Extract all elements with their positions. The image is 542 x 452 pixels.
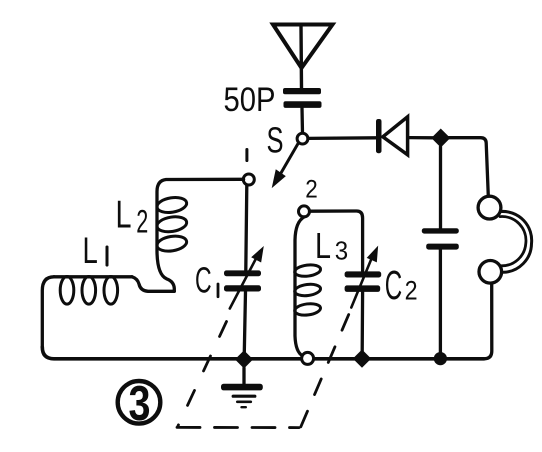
svg-text:C: C (385, 262, 402, 308)
svg-text:2: 2 (305, 176, 318, 204)
svg-text:L: L (315, 225, 331, 266)
headphones headband outer arc (501, 211, 532, 272)
wire C1 down to junction (244, 292, 245, 353)
svg-text:L: L (83, 230, 98, 271)
label 1 (switch contact 1) (245, 148, 248, 162)
contact 1 (243, 174, 254, 185)
capacitor C2 (variable) (345, 271, 382, 292)
dashed gang link left (through C1) (178, 322, 227, 427)
wire headphones down to bottom right corner (484, 283, 492, 359)
left vertical wire (42, 277, 54, 347)
headphones headband inner arc (500, 217, 526, 266)
bottom bus wire (42, 347, 484, 359)
wire contact2 to C2 branch (310, 211, 363, 271)
svg-text:50P: 50P (224, 81, 276, 119)
inductor L1 (54, 277, 174, 305)
headphones BF1 bottom earpiece (479, 261, 502, 284)
svg-text:L: L (116, 194, 132, 237)
ground (221, 368, 263, 407)
antenna W1 (273, 25, 333, 89)
capacitor C3 (bypass) (422, 228, 459, 249)
wire contact1 down to C1 (246, 185, 247, 270)
wire cap to switch (300, 108, 304, 133)
svg-text:2: 2 (136, 204, 148, 240)
dashed gang link bottom (177, 426, 299, 429)
switch S arm with arrow (273, 144, 298, 186)
wire bypass capacitor down to junction (439, 250, 442, 352)
headphones BF1 top earpiece (478, 196, 501, 219)
label C2 (385, 262, 418, 308)
C2 arrow (351, 248, 377, 308)
label L2 (116, 194, 149, 240)
wire top junction down to bypass capacitor (439, 147, 442, 229)
svg-text:S: S (267, 120, 284, 161)
svg-text:3: 3 (129, 377, 151, 431)
wire junction to top right corner and down (447, 138, 488, 197)
dashed gang link right (through C2) (301, 300, 355, 427)
node open junction below L3 (302, 352, 314, 364)
diode VD1 (376, 117, 433, 155)
node junction top right (432, 130, 449, 147)
wire C2 down to junction (361, 292, 365, 351)
svg-text:2: 2 (405, 276, 418, 306)
svg-text:C: C (195, 259, 212, 300)
capacitor 50P (283, 88, 322, 108)
node junction bottom right (434, 352, 447, 365)
label C1 (195, 259, 219, 300)
label L1 (83, 230, 109, 271)
node junction below C1 (236, 351, 252, 367)
inductor L3 (294, 217, 321, 356)
inductor L2 (156, 179, 244, 291)
figure number circle 3 (118, 377, 161, 431)
label L3 (315, 225, 348, 266)
C1 arrow (230, 248, 263, 309)
wire diode row: pivot to diode (308, 136, 377, 140)
node junction below C2 (354, 351, 370, 367)
switch S pivot (297, 133, 308, 144)
svg-text:3: 3 (335, 238, 348, 266)
capacitor C1 (variable) (224, 270, 261, 291)
contact 2 (299, 206, 310, 217)
